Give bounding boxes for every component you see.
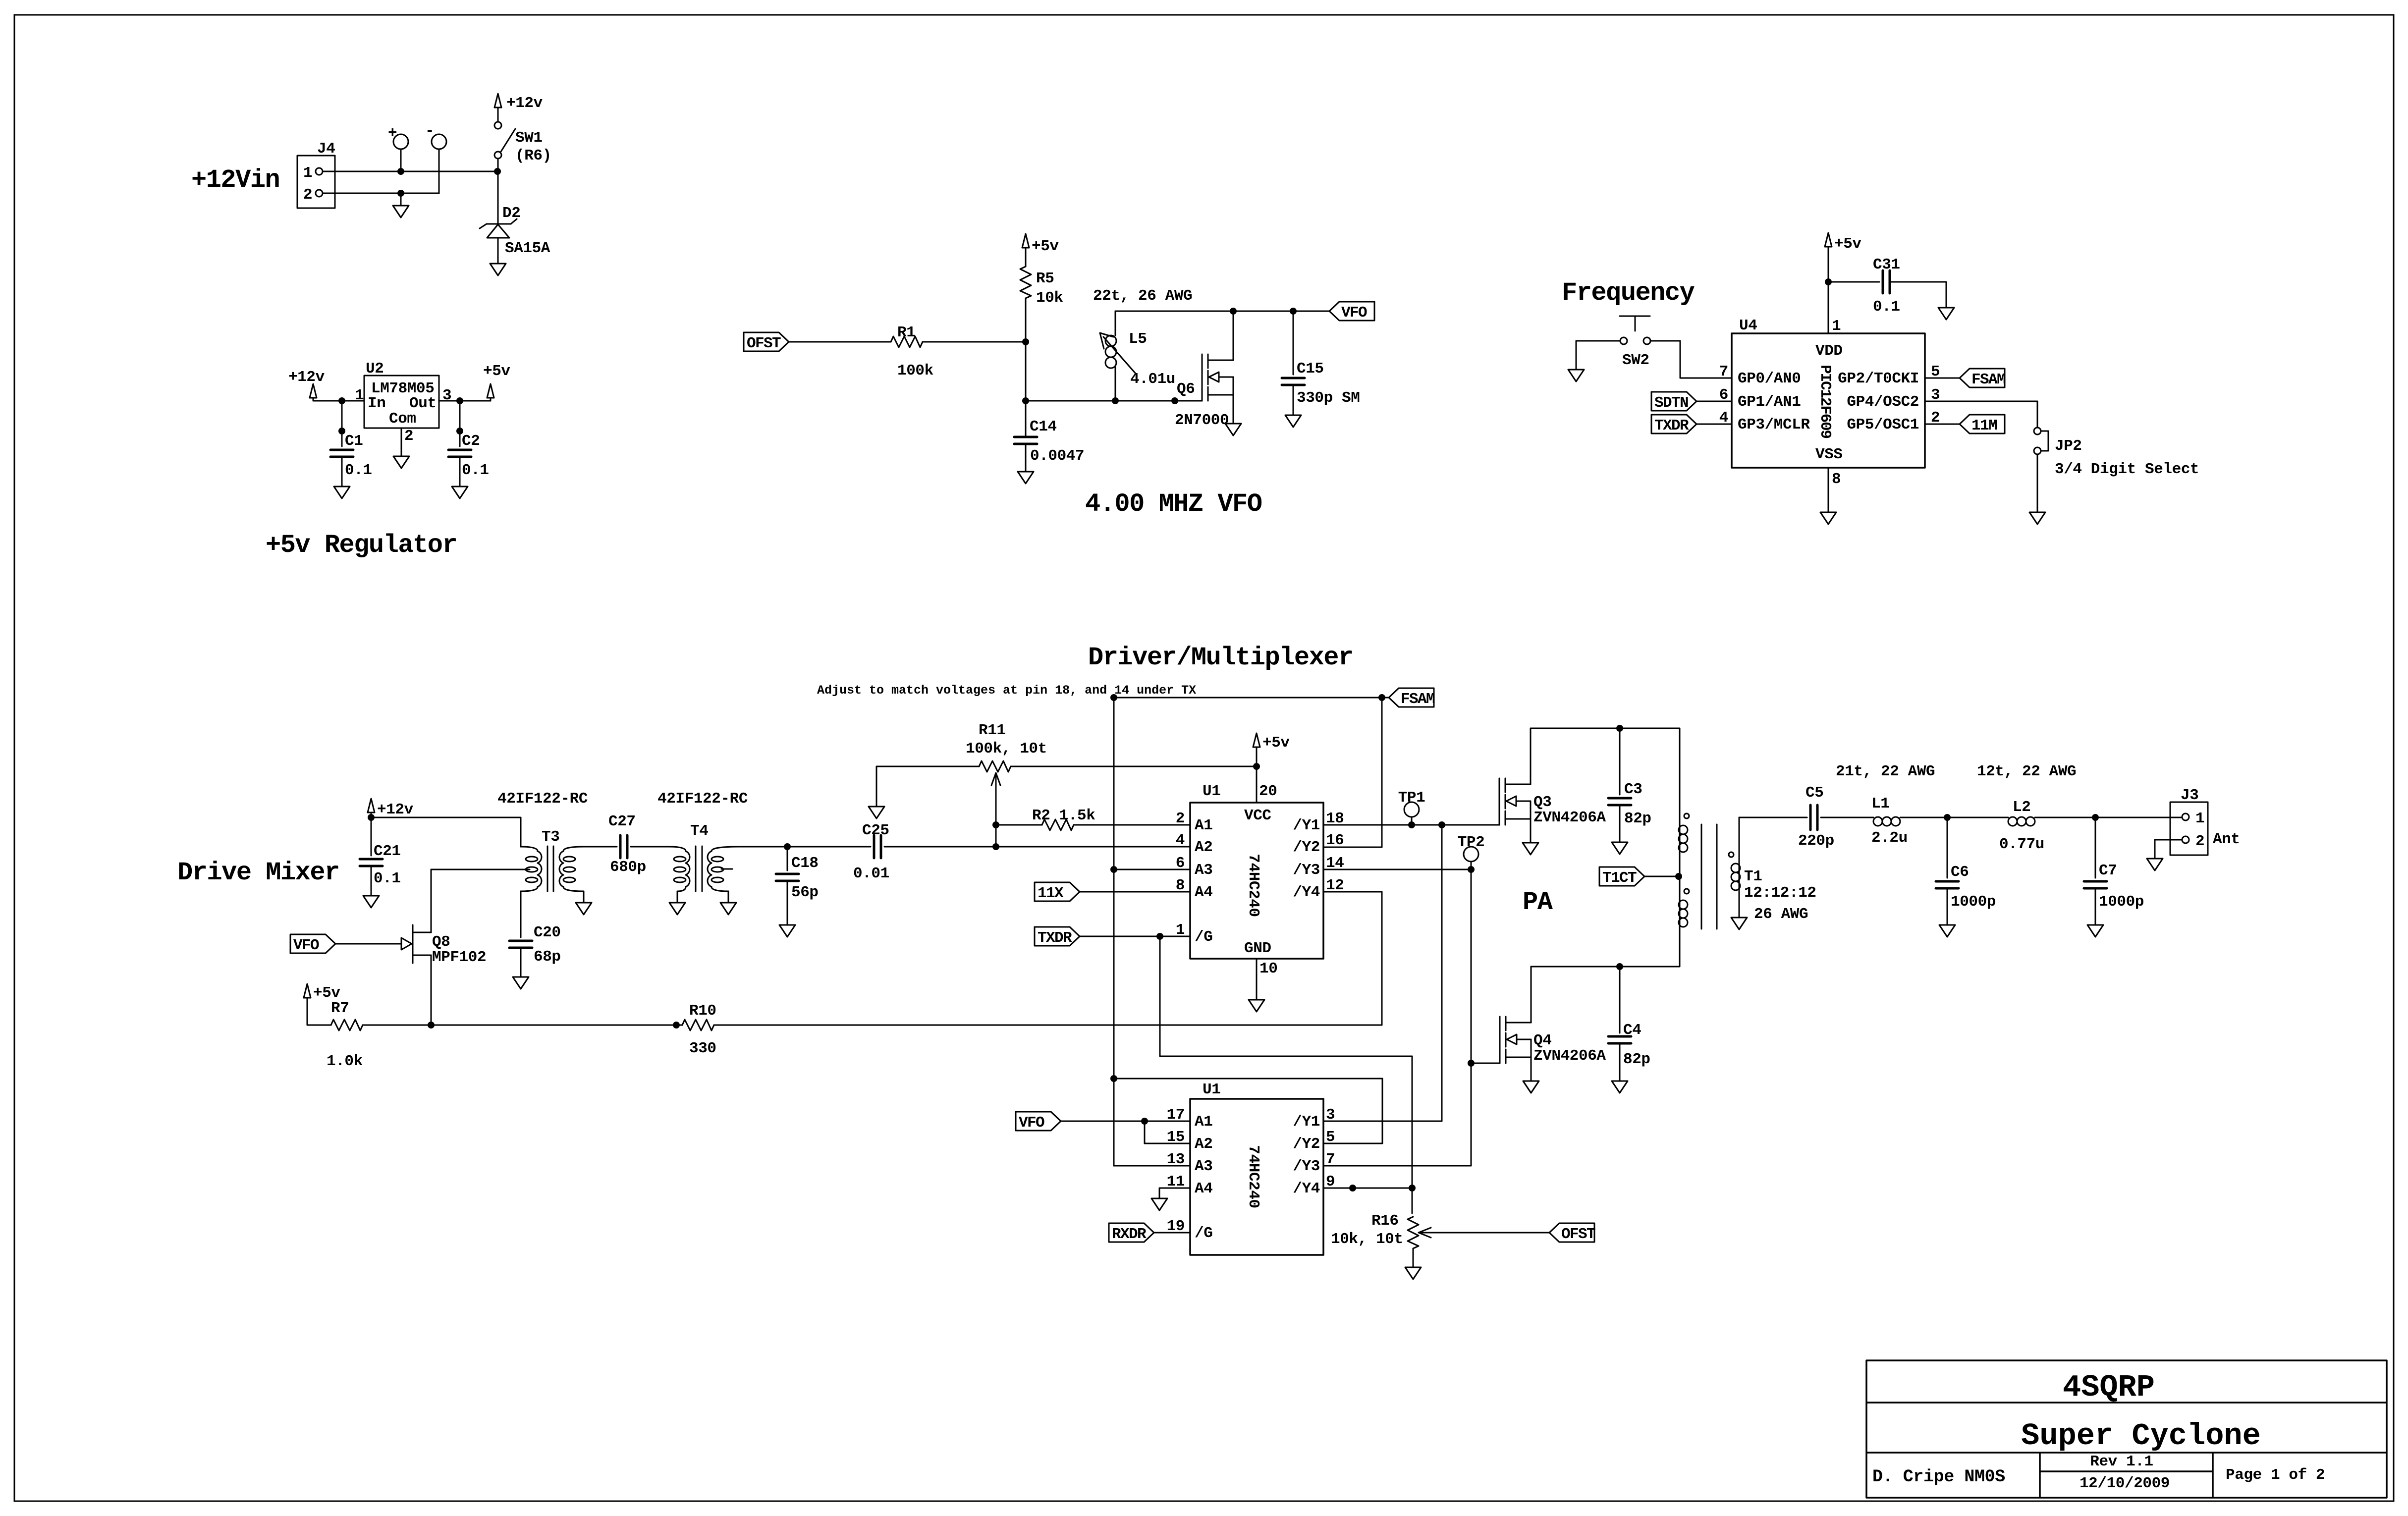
capacitor C31 plates <box>1883 271 1890 293</box>
net flag TXDR (to GP3) <box>1651 415 1697 434</box>
resistor R2 <box>1042 819 1074 830</box>
ground (D2) <box>490 264 506 275</box>
svg-text:1000p: 1000p <box>1951 893 1996 911</box>
resistor R10 <box>682 1020 714 1030</box>
svg-text:GP2/T0CKI: GP2/T0CKI <box>1838 370 1919 387</box>
svg-text:C7: C7 <box>2099 862 2117 879</box>
ground (Q3) <box>1523 843 1538 855</box>
svg-text:100k, 10t: 100k, 10t <box>966 740 1047 758</box>
ground (input return) <box>393 206 409 217</box>
svg-text:J3: J3 <box>2181 787 2198 804</box>
wire A3 net to /Y2 pin 5 <box>1114 1079 1382 1143</box>
svg-text:/G: /G <box>1195 1225 1212 1242</box>
svg-text:42IF122-RC: 42IF122-RC <box>657 790 748 808</box>
svg-text:0.1: 0.1 <box>374 870 401 887</box>
wire +12v to SW1 <box>497 108 499 122</box>
resistor R7 <box>331 1020 363 1030</box>
ground (C6) <box>1939 925 1955 937</box>
capacitor C18 plates <box>776 874 799 881</box>
svg-text:C2: C2 <box>462 433 480 450</box>
ground (R16) <box>1405 1267 1421 1279</box>
net flag VFO (to Q8) <box>290 934 335 954</box>
svg-text:7: 7 <box>1326 1151 1335 1168</box>
junction C2 <box>456 397 463 404</box>
svg-text:C20: C20 <box>534 924 561 941</box>
ground (C20) <box>513 977 529 989</box>
wire C20 to ground <box>520 948 522 977</box>
wire Q6 source to ground <box>1233 395 1234 424</box>
wire L1 to L2 <box>1900 817 2008 818</box>
capacitor C27 plates <box>620 835 627 858</box>
wire TXDR to R16 top <box>1160 936 1412 1213</box>
test point TP1 <box>1404 802 1419 825</box>
svg-text:VSS: VSS <box>1815 446 1843 463</box>
T1 primary bottom winding <box>1679 900 1688 927</box>
wire T4 primary bottom to ground <box>677 891 678 903</box>
capacitor C14 plates <box>1014 437 1037 444</box>
svg-text:OFST: OFST <box>747 335 781 352</box>
net flag 11X <box>1035 882 1080 902</box>
power +5v (U1 VCC) <box>1253 733 1290 752</box>
svg-text:68p: 68p <box>534 948 561 966</box>
svg-text:U2: U2 <box>366 360 383 378</box>
svg-text:C1: C1 <box>345 433 363 450</box>
svg-text:74HC240: 74HC240 <box>1245 854 1262 917</box>
svg-text:L2: L2 <box>2013 799 2030 816</box>
wire SW2 to GP0 <box>1650 341 1732 378</box>
svg-text:-: - <box>425 122 434 140</box>
T4 secondary winding <box>711 847 738 851</box>
regulator U2 LM78M05 <box>364 376 439 428</box>
wire U2 Out to +5v <box>439 400 491 402</box>
svg-text:VFO: VFO <box>1019 1114 1044 1132</box>
wire SDTN to GP1 <box>1697 401 1732 402</box>
test point TP2 <box>1464 847 1478 869</box>
wire C14 to ground <box>1025 444 1027 472</box>
svg-text:PIC12F609: PIC12F609 <box>1816 365 1834 438</box>
junction SW1 / J4.1 rail <box>494 168 501 175</box>
junction C15 <box>1290 308 1297 315</box>
svg-text:Driver/Multiplexer: Driver/Multiplexer <box>1088 643 1353 672</box>
svg-text:11M: 11M <box>1971 417 1997 434</box>
phase dot (T1 primary top) <box>1684 813 1689 818</box>
wire TXDR to /G pin 1 <box>1080 936 1190 937</box>
wire C3 to ground <box>1619 805 1621 842</box>
ground (T4 primary) <box>669 903 685 915</box>
diode D2 SA15A (zener) <box>480 219 517 238</box>
wire to C31 <box>1828 281 1879 283</box>
wire /Y1 upper to /Y1 lower pin 3 <box>1324 825 1442 1121</box>
junction R1/R5 <box>1022 338 1029 345</box>
transistor Q8 MPF102 (JFET) <box>401 925 431 963</box>
svg-text:MPF102: MPF102 <box>432 949 486 966</box>
resistor R11 (trimpot) <box>979 761 1011 772</box>
svg-text:/G: /G <box>1195 928 1212 946</box>
svg-text:0.1: 0.1 <box>1873 298 1900 316</box>
svg-text:330: 330 <box>689 1040 716 1057</box>
wire L5 top <box>1115 311 1116 335</box>
ground (C3) <box>1612 842 1628 854</box>
svg-text:C27: C27 <box>608 813 636 830</box>
wire C31 to ground <box>1890 282 1946 308</box>
svg-text:74HC240: 74HC240 <box>1245 1145 1262 1208</box>
wire to C6 <box>1947 817 1948 878</box>
wire /Y1 pin 18 to Q3 gate <box>1324 824 1499 826</box>
wire +5v to R5 <box>1025 248 1027 267</box>
wire C15 to ground <box>1293 385 1294 415</box>
wire L5 bottom <box>1115 367 1116 401</box>
svg-text:1000p: 1000p <box>2099 893 2144 911</box>
phase mark minus (T4) <box>721 868 732 870</box>
svg-text:/Y1: /Y1 <box>1293 1113 1320 1131</box>
svg-text:2: 2 <box>1176 810 1185 827</box>
svg-text:/Y3: /Y3 <box>1293 862 1320 879</box>
svg-text:A4: A4 <box>1195 1180 1212 1197</box>
junction /Y1 pair <box>1438 821 1445 828</box>
svg-text:SDTN: SDTN <box>1654 394 1688 412</box>
svg-text:T3: T3 <box>542 828 559 846</box>
svg-text:0.0047: 0.0047 <box>1030 447 1084 465</box>
wire +12v to T3 primary top <box>371 812 521 847</box>
wire /Y3 pin 14 to TP2 <box>1324 869 1471 870</box>
svg-text:T1: T1 <box>1744 868 1762 885</box>
wire +5v arrow stem <box>490 398 492 401</box>
svg-text:1.0k: 1.0k <box>327 1053 363 1070</box>
junction Q4 gate <box>1468 1060 1475 1067</box>
net flag 11M <box>1960 415 2005 434</box>
svg-text:C4: C4 <box>1623 1022 1641 1039</box>
svg-text:J4: J4 <box>317 140 335 158</box>
wire A1 to A2 pin 15 <box>1145 1121 1190 1143</box>
wire to C15 <box>1293 311 1294 375</box>
power +5v (R5) <box>1022 234 1059 255</box>
junction T1 center tap <box>1675 873 1682 880</box>
wire J3.2 to ground <box>2155 840 2182 859</box>
T4 secondary winding arcs <box>708 851 723 887</box>
wire GND pin 10 to ground <box>1256 959 1258 1000</box>
svg-text:TP1: TP1 <box>1398 789 1425 807</box>
svg-text:26 AWG: 26 AWG <box>1754 906 1808 923</box>
svg-text:Frequency: Frequency <box>1562 278 1695 308</box>
svg-text:+: + <box>388 125 397 142</box>
svg-text:/Y2: /Y2 <box>1293 839 1320 856</box>
net flag OFST (VFO input) <box>744 332 789 352</box>
svg-text:100k: 100k <box>897 362 933 379</box>
wire T1 secondary to C5 <box>1739 817 1807 818</box>
wire to C3 <box>1619 728 1621 795</box>
IC U1 74HC240 (lower) <box>1190 1099 1323 1255</box>
svg-text:0.1: 0.1 <box>462 462 489 479</box>
wire to C21 <box>371 817 372 856</box>
wire Q4 source to ground <box>1531 1057 1532 1081</box>
wire C4 to ground <box>1619 1043 1621 1081</box>
switch SW1 <box>494 122 515 159</box>
svg-text:8: 8 <box>1832 471 1841 488</box>
wire FSAM net to A3 pin 13 <box>1114 1165 1190 1167</box>
svg-text:42IF122-RC: 42IF122-RC <box>497 790 588 808</box>
T3 secondary winding arcs <box>559 851 575 887</box>
ground (C4) <box>1612 1081 1628 1093</box>
svg-text:L1: L1 <box>1871 795 1889 812</box>
svg-text:220p: 220p <box>1798 832 1834 850</box>
svg-text:Out: Out <box>409 395 437 412</box>
wire wiper to signal node <box>995 803 997 847</box>
net flag VFO (VFO output) <box>1329 302 1374 322</box>
svg-text:GP1/AN1: GP1/AN1 <box>1738 393 1801 411</box>
phase dot (T1 primary bottom) <box>1684 889 1689 894</box>
capacitor C21 plates <box>360 859 383 866</box>
wire VFO to Q8 gate <box>335 943 401 945</box>
jumper JP2 <box>2034 428 2048 454</box>
svg-text:A4: A4 <box>1195 884 1212 901</box>
ground (U1 lower A4) <box>1151 1198 1167 1210</box>
junction on C2 lead <box>456 428 463 434</box>
inductor L2 coil <box>2008 817 2035 826</box>
wire C6 to ground <box>1947 888 1948 925</box>
capacitor C2 plates <box>448 450 471 457</box>
wire /Y3 upper to /Y3 lower pin 7 <box>1324 869 1471 1166</box>
ground (C31) <box>1938 308 1954 320</box>
connector J3 <box>2170 802 2208 855</box>
title block frame <box>1866 1360 2387 1498</box>
pushbutton SW2 <box>1620 316 1650 344</box>
svg-text:RXDR: RXDR <box>1112 1226 1147 1243</box>
junction on C1 lead <box>338 428 345 434</box>
transistor Q3 ZVN4206A <box>1499 778 1531 825</box>
svg-text:Q8: Q8 <box>432 933 450 951</box>
wire to ground <box>400 193 402 206</box>
svg-text:2: 2 <box>404 428 413 445</box>
junction R2/R11 wiper <box>992 843 999 850</box>
svg-text:GP5/OSC1: GP5/OSC1 <box>1847 416 1919 433</box>
junction C31 <box>1825 278 1832 285</box>
resistor R16 (trimpot) <box>1408 1217 1419 1248</box>
ground (Q6) <box>1225 424 1241 435</box>
T4 primary winding arcs <box>674 851 690 887</box>
svg-text:3/4 Digit Select: 3/4 Digit Select <box>2055 461 2199 478</box>
svg-text:GND: GND <box>1244 940 1271 957</box>
svg-text:Rev 1.1: Rev 1.1 <box>2090 1453 2153 1470</box>
junction at Q6 gate rail <box>1171 397 1178 404</box>
svg-text:SW2: SW2 <box>1622 352 1649 369</box>
svg-text:10: 10 <box>1259 960 1277 977</box>
junction C4 <box>1616 963 1623 970</box>
net flag FSAM (driver) <box>1389 688 1435 708</box>
wire C25 to U1 A2 <box>884 846 1190 848</box>
wire GP2 to FSAM <box>1925 378 1960 379</box>
svg-text:12:12:12: 12:12:12 <box>1744 884 1816 902</box>
ground (C7) <box>2087 925 2103 937</box>
svg-text:Page 1 of 2: Page 1 of 2 <box>2226 1466 2325 1484</box>
junction FSAM //Y2 <box>1378 694 1385 701</box>
wire JP2 to ground <box>2037 454 2038 512</box>
svg-text:0.01: 0.01 <box>853 865 889 882</box>
svg-text:2: 2 <box>303 186 312 204</box>
wire Q3 drain to T1 top <box>1531 728 1680 876</box>
svg-text:4.00 MHZ VFO: 4.00 MHZ VFO <box>1085 489 1262 519</box>
junction C3 <box>1616 725 1623 732</box>
ground (C21) <box>363 896 379 908</box>
wire R16 to ground <box>1413 1248 1414 1267</box>
svg-text:C21: C21 <box>374 843 401 860</box>
wire RXDR to /G pin 19 <box>1154 1232 1190 1234</box>
svg-text:/Y3: /Y3 <box>1293 1158 1320 1175</box>
junction A1/A2 link <box>1141 1118 1148 1125</box>
junction Q6 drain <box>1230 308 1237 315</box>
svg-text:20: 20 <box>1259 783 1277 800</box>
svg-text:JP2: JP2 <box>2055 437 2082 455</box>
svg-text:GP4/OSC2: GP4/OSC2 <box>1847 393 1919 411</box>
svg-text:1: 1 <box>303 164 312 182</box>
power +12v (SW1) <box>494 94 543 112</box>
minus terminal circle <box>432 134 446 149</box>
junction plus/J4.1 <box>397 168 404 175</box>
wire Q3 source to ground <box>1530 819 1532 843</box>
svg-text:A2: A2 <box>1195 1136 1212 1153</box>
capacitor C25 plates <box>874 835 881 858</box>
ground (T1 secondary) <box>1731 918 1747 929</box>
wire to C14 <box>1025 401 1027 437</box>
wire T1 secondary <box>1739 817 1740 918</box>
junction C6 <box>1944 814 1951 821</box>
T3 secondary winding <box>563 847 584 851</box>
wire R11 left to ground <box>876 766 877 807</box>
wire U2 Com to ground <box>401 428 402 456</box>
junction C21 <box>368 814 375 821</box>
junction C18 <box>784 843 791 850</box>
svg-text:+5v: +5v <box>483 363 510 380</box>
svg-text:R5: R5 <box>1036 270 1054 287</box>
svg-text:4: 4 <box>1176 832 1185 849</box>
capacitor C1 plates <box>330 450 353 457</box>
svg-text:1: 1 <box>355 387 364 404</box>
svg-text:/Y1: /Y1 <box>1293 817 1320 834</box>
wire A4 pin 11 to ground <box>1159 1188 1190 1198</box>
junction TP2 <box>1468 866 1475 873</box>
wire T1 primary lower <box>1531 876 1680 967</box>
ground (J3) <box>2147 859 2163 870</box>
transformer T3 <box>547 846 553 891</box>
power +5v (U2 output) <box>483 363 510 398</box>
svg-text:C3: C3 <box>1624 781 1642 798</box>
capacitor C3 plates <box>1608 798 1631 805</box>
phase dot (T1 secondary) <box>1729 852 1734 857</box>
wire GP4 to JP2 <box>1925 401 2037 428</box>
svg-text:Adjust to match voltages at pi: Adjust to match voltages at pin 18, and … <box>817 683 1196 698</box>
svg-text:/Y4: /Y4 <box>1293 1180 1320 1197</box>
svg-text:T4: T4 <box>690 822 708 840</box>
ground (C15) <box>1285 415 1301 427</box>
wire C18 to ground <box>787 881 788 925</box>
wire +5v to VCC pin 20 <box>1256 747 1258 803</box>
wire R1 to node <box>923 341 1026 343</box>
wire node to Q6 gate <box>1026 400 1202 402</box>
ground (C18) <box>779 925 795 937</box>
capacitor C7 plates <box>2084 881 2107 888</box>
svg-text:C5: C5 <box>1806 784 1823 802</box>
svg-text:17: 17 <box>1167 1106 1185 1124</box>
wire T3 secondary bottom to ground <box>583 891 585 903</box>
svg-text:3: 3 <box>442 387 451 404</box>
svg-text:/Y2: /Y2 <box>1293 1136 1320 1153</box>
wire C27 to T4 <box>631 846 669 848</box>
svg-text:+5v: +5v <box>1032 238 1059 255</box>
T3 primary winding arcs <box>526 851 542 887</box>
wire FSAM to /Y2 pin 16 <box>1324 698 1382 847</box>
svg-text:U1: U1 <box>1203 1081 1220 1098</box>
svg-text:1: 1 <box>1832 318 1841 335</box>
resistor R5 <box>1020 267 1031 298</box>
wire TXDR to GP3 <box>1697 424 1732 425</box>
svg-text:2: 2 <box>2195 833 2204 850</box>
svg-text:In: In <box>368 395 385 412</box>
svg-text:330p SM: 330p SM <box>1297 389 1360 407</box>
junction C1 <box>338 397 345 404</box>
ground (U1 upper) <box>1249 1000 1264 1012</box>
svg-text:+12Vin: +12Vin <box>191 165 279 195</box>
wire L2 to J3 <box>2035 817 2182 818</box>
wire SW1 to D2 <box>497 159 499 223</box>
svg-text:Super Cyclone: Super Cyclone <box>2021 1418 2261 1454</box>
capacitor C4 plates <box>1608 1036 1631 1043</box>
junction L5 bottom <box>1112 397 1119 404</box>
wire Q4 drain up <box>1531 967 1532 1023</box>
connector J4 <box>297 156 335 208</box>
svg-text:R10: R10 <box>689 1002 716 1020</box>
wire to C2 <box>459 401 461 446</box>
svg-text:/Y4: /Y4 <box>1293 884 1320 901</box>
ground (T4 secondary) <box>720 903 736 915</box>
wire Q8 source to R7 node <box>431 955 432 1025</box>
junction FSAM vertical <box>1110 694 1117 701</box>
wire GP5 to 11M <box>1925 424 1960 425</box>
svg-text:OFST: OFST <box>1561 1226 1595 1243</box>
wire VFO to A1 pin 17 <box>1061 1121 1190 1122</box>
T1 primary top winding <box>1679 825 1688 852</box>
svg-text:PA: PA <box>1523 888 1553 917</box>
svg-text:82p: 82p <box>1624 810 1651 827</box>
svg-text:GP0/AN0: GP0/AN0 <box>1738 370 1801 387</box>
svg-text:2.2u: 2.2u <box>1871 829 1908 847</box>
svg-text:4SQRP: 4SQRP <box>2063 1370 2155 1405</box>
wire +12v to U2 In <box>313 398 364 401</box>
wire T4 secondary bottom to ground <box>728 891 729 903</box>
wire C5 to L1 <box>1821 817 1873 818</box>
wire FSAM vertical to A3 pins <box>1113 698 1115 1166</box>
plus terminal circle <box>393 134 408 149</box>
svg-text:FSAM: FSAM <box>1971 371 2006 388</box>
wire 11X to A4 pin 8 <box>1080 891 1190 893</box>
wire D2 to ground <box>497 238 499 264</box>
wire R10 to U1 /Y4 pin 12 <box>714 892 1382 1025</box>
wire R7 to R10 <box>363 1025 682 1026</box>
ground (JP2) <box>2029 512 2045 524</box>
junction minus rail / ground <box>397 190 404 197</box>
svg-text:A3: A3 <box>1195 1158 1212 1175</box>
net flag RXDR <box>1109 1223 1154 1243</box>
junction C14 / Q6 gate rail <box>1022 397 1029 404</box>
svg-text:Com: Com <box>389 410 416 428</box>
wire to C4 <box>1619 967 1621 1033</box>
svg-text:2N7000: 2N7000 <box>1175 412 1229 429</box>
net flag OFST (from R16) <box>1549 1223 1595 1243</box>
svg-text:SA15A: SA15A <box>505 240 550 257</box>
IC U4 PIC12F609 <box>1732 333 1925 468</box>
wire R11 right to +5v rail <box>1011 766 1257 767</box>
svg-text:C25: C25 <box>862 822 889 839</box>
junction +5v/VCC <box>1253 763 1260 770</box>
svg-text:12t, 22 AWG: 12t, 22 AWG <box>1977 763 2076 780</box>
